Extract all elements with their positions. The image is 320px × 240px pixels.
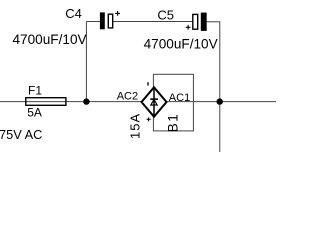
wire bottom left to fuse bbox=[0, 101, 26, 103]
capacitor C5 positive plate bbox=[193, 14, 198, 29]
diode triangle bbox=[151, 100, 157, 105]
capacitor C4 negative plate bbox=[100, 12, 105, 29]
capacitor C4 plus mark bbox=[115, 11, 120, 16]
capacitor C5 plus mark bbox=[186, 25, 191, 30]
bridge rectifier B1 body box bbox=[153, 74, 193, 131]
wire left vertical branch bbox=[85, 22, 87, 102]
wire AC1 to right edge bbox=[167, 101, 277, 103]
junction dot left bbox=[83, 98, 89, 104]
svg-text:4700uF/10V: 4700uF/10V bbox=[144, 36, 218, 51]
wire top from left vertical to C4 bbox=[86, 21, 100, 23]
wire right vertical branch bbox=[219, 22, 221, 152]
capacitor C4 positive plate bbox=[108, 14, 112, 28]
diode inside bridge: lead bbox=[153, 88, 155, 116]
wire top from C5 to right vertical bbox=[207, 21, 220, 23]
svg-text:75V AC: 75V AC bbox=[0, 127, 42, 142]
svg-text:4700uF/10V: 4700uF/10V bbox=[13, 32, 87, 47]
svg-text:F1: F1 bbox=[28, 83, 42, 97]
svg-text:5A: 5A bbox=[27, 106, 42, 120]
plus mark (DC+ terminal) bbox=[147, 117, 151, 121]
svg-text:AC2: AC2 bbox=[117, 91, 138, 103]
fuse F1 body bbox=[26, 98, 66, 106]
bridge rectifier B1 diamond bbox=[142, 87, 167, 116]
junction dot right bbox=[217, 98, 223, 104]
svg-text:B1: B1 bbox=[166, 113, 181, 133]
minus mark (DC- terminal) bbox=[147, 82, 149, 85]
diode cathode bar bbox=[150, 98, 158, 100]
capacitor C5 negative plate bbox=[201, 13, 207, 31]
wire top between C4 and C5 bbox=[113, 21, 192, 23]
svg-text:C5: C5 bbox=[157, 7, 174, 22]
wire through fuse to bridge AC2 bbox=[26, 101, 142, 103]
svg-text:AC1: AC1 bbox=[169, 92, 190, 104]
svg-text:15A: 15A bbox=[128, 113, 143, 139]
svg-text:C4: C4 bbox=[65, 6, 82, 21]
